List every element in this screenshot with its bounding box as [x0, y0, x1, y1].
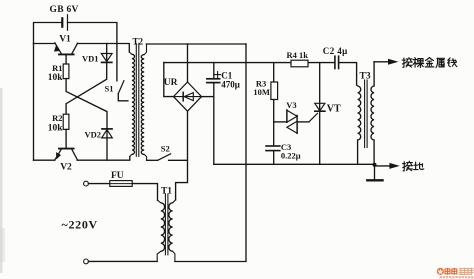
wire bridge DC+ to rail	[164, 63, 174, 97]
resistor R2	[48, 113, 69, 133]
resistor R3	[253, 63, 277, 100]
svg-text:~220V: ~220V	[62, 217, 98, 231]
battery GB 6V	[50, 5, 79, 30]
wire battery negative to S1 drop	[68, 23, 117, 81]
svg-text:T1: T1	[161, 186, 172, 196]
diode VD1	[82, 44, 112, 64]
svg-text:T2: T2	[132, 37, 143, 47]
svg-text:10M: 10M	[253, 87, 270, 97]
diode VD2	[85, 129, 113, 160]
wire bridge DC- to C1 line	[202, 96, 214, 98]
transformer T1	[157, 186, 175, 261]
terminal mains bottom	[84, 259, 89, 264]
svg-text:S2: S2	[161, 144, 170, 154]
label connect-ground (Chinese)	[402, 161, 423, 171]
diac V3	[274, 100, 309, 133]
junction dot T3 secondary to ground	[373, 163, 377, 167]
watermark	[437, 268, 474, 277]
wire V2 collector to T2 primary bottom	[77, 157, 130, 161]
arrow to bare metal wire	[374, 59, 398, 65]
svg-text:VD2: VD2	[85, 129, 102, 139]
wire left rail	[33, 44, 35, 161]
wire V1 collector to T2 primary top	[77, 44, 129, 53]
capacitor C3	[266, 142, 301, 164]
ground symbol	[367, 165, 382, 181]
resistor R4	[287, 50, 309, 67]
svg-text:C2 4μ: C2 4μ	[323, 46, 348, 56]
label connect-bare-metal-wire (Chinese)	[402, 58, 457, 68]
svg-text:UR: UR	[164, 78, 178, 88]
scan smudge left edge	[0, 88, 3, 273]
scan smudge bottom left	[0, 228, 5, 262]
transistor V2	[34, 149, 78, 173]
wire VD1 cathode to R2 top (cross-coupling)	[66, 62, 107, 114]
svg-text:T3: T3	[360, 71, 371, 81]
svg-text:VD1: VD1	[82, 53, 99, 63]
wire bridge AC top lead	[187, 44, 189, 82]
switch S2	[147, 144, 187, 161]
wire T1 secondary to AC top node	[175, 44, 246, 262]
wire bridge AC bottom to S2 and T1	[176, 111, 188, 200]
svg-text:470μ: 470μ	[221, 80, 240, 90]
svg-text:FU: FU	[111, 171, 124, 181]
svg-text:0.22μ: 0.22μ	[281, 151, 301, 161]
svg-text:VT: VT	[327, 103, 341, 114]
wire mains bottom to T1	[88, 260, 157, 262]
wire battery positive to left rail	[34, 23, 63, 44]
wire DC- bottom rail	[214, 163, 375, 165]
transformer T2	[129, 37, 146, 161]
transistor V1	[34, 35, 78, 64]
svg-text:10k: 10k	[48, 123, 64, 133]
resistor R1	[48, 63, 69, 83]
svg-text:V1: V1	[59, 35, 71, 45]
svg-text:R2: R2	[52, 113, 62, 123]
wire DC+ rail right of R4	[308, 62, 335, 64]
fuse FU	[84, 171, 158, 200]
svg-text:10k: 10k	[48, 73, 64, 83]
svg-text:S1: S1	[105, 84, 114, 94]
svg-text:V3: V3	[286, 100, 296, 110]
arrow to ground wire	[375, 163, 400, 169]
svg-text:R1: R1	[52, 63, 62, 73]
thyristor VT	[309, 63, 341, 165]
svg-text:GB 6V: GB 6V	[50, 5, 79, 15]
wire DC+ rail	[164, 62, 291, 64]
wire R1 bottom to VD2 anode line (cross-coupling)	[66, 79, 107, 129]
capacitor C2	[323, 46, 357, 85]
wire R2 bottom to V2 base	[65, 129, 67, 148]
switch S1	[105, 81, 128, 101]
svg-text:R4 1k: R4 1k	[287, 50, 309, 60]
wire T2 secondary top to bridge AC top	[146, 43, 246, 45]
capacitor C1	[207, 63, 240, 165]
bridge rectifier UR	[164, 78, 202, 111]
transformer T3	[357, 62, 375, 165]
wire R3 to C3 node	[273, 100, 275, 146]
svg-text:V2: V2	[60, 162, 72, 172]
